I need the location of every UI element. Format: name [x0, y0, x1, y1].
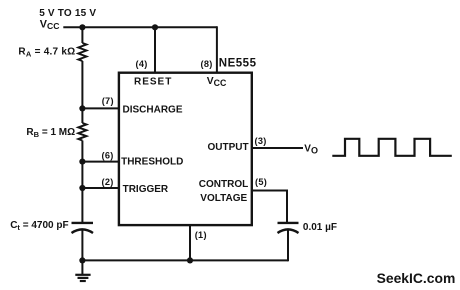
- node junction top pin4: [152, 24, 158, 30]
- node junction pin6: [79, 159, 85, 165]
- ground: [75, 260, 90, 281]
- wire pin 6: [82, 161, 119, 163]
- wire top rail Vcc: [63, 26, 217, 28]
- svg-text:DISCHARGE: DISCHARGE: [123, 104, 183, 115]
- capacitor Ct: [72, 223, 94, 233]
- wire RA to RB: [81, 61, 83, 123]
- wire pin 7: [82, 107, 119, 109]
- svg-text:CONTROL: CONTROL: [199, 179, 248, 190]
- node junction top-RA: [79, 24, 85, 30]
- output waveform: [332, 139, 452, 156]
- wire bottom rail pin 1: [82, 259, 288, 261]
- svg-text:5 V TO 15 V: 5 V TO 15 V: [39, 8, 96, 19]
- svg-text:TRIGGER: TRIGGER: [123, 184, 169, 195]
- svg-text:NE555: NE555: [219, 58, 257, 70]
- wire pin 2: [82, 187, 119, 189]
- svg-text:(7): (7): [102, 96, 114, 106]
- svg-text:(8): (8): [201, 59, 213, 69]
- wire Ct to bottom rail: [81, 230, 83, 261]
- svg-text:(3): (3): [255, 136, 267, 146]
- svg-text:SeekIC.com: SeekIC.com: [377, 270, 456, 286]
- svg-text:VOLTAGE: VOLTAGE: [200, 193, 247, 204]
- svg-text:(2): (2): [102, 177, 114, 187]
- svg-text:(1): (1): [195, 230, 207, 240]
- svg-text:VO: VO: [304, 144, 318, 156]
- resistor RA: [78, 43, 86, 61]
- svg-text:(6): (6): [102, 151, 114, 161]
- wire cap to bottom rail: [287, 230, 289, 262]
- wire pin 8 drop: [216, 26, 218, 73]
- wire pin 5 to cap: [252, 191, 287, 223]
- node junction pin2: [79, 185, 85, 191]
- wire pin 4 drop: [154, 27, 156, 73]
- node junction bottom-left: [79, 257, 85, 263]
- op-amp U1 NE555 box: [119, 73, 252, 225]
- svg-text:(4): (4): [136, 59, 148, 69]
- svg-text:RB = 1 MΩ: RB = 1 MΩ: [26, 127, 75, 139]
- svg-text:THRESHOLD: THRESHOLD: [121, 157, 183, 168]
- svg-text:Ct = 4700 pF: Ct = 4700 pF: [10, 220, 68, 232]
- svg-text:0.01 µF: 0.01 µF: [303, 222, 337, 233]
- svg-text:OUTPUT: OUTPUT: [208, 142, 249, 153]
- wire left chain top (rail to RA): [81, 27, 83, 43]
- node junction pin7: [79, 105, 85, 111]
- svg-text:RA = 4.7 kΩ: RA = 4.7 kΩ: [18, 46, 75, 58]
- wire pin 1 drop: [189, 225, 191, 261]
- svg-text:VCC: VCC: [40, 18, 60, 31]
- capacitor 0.01uF: [278, 223, 299, 233]
- svg-text:VCC: VCC: [207, 76, 227, 88]
- svg-text:RESET: RESET: [134, 77, 172, 88]
- svg-text:(5): (5): [255, 177, 267, 187]
- resistor RB: [78, 123, 86, 140]
- node junction pin1: [187, 257, 193, 263]
- wire RB to Ct: [81, 141, 83, 223]
- wire pin 3 output: [252, 147, 303, 149]
